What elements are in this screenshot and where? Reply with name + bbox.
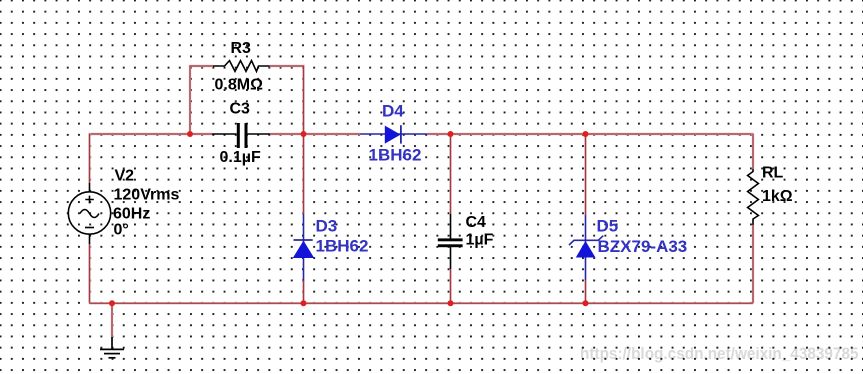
node 7 bottom junction at C4 branch [448,300,454,306]
wire top rail left segment [90,133,213,135]
node 1 top-left junction [187,131,193,137]
svg-text:60Hz: 60Hz [113,206,150,223]
node 2 top junction at D3 branch [301,131,307,137]
wire RL branch lower [752,225,754,303]
svg-text:C3: C3 [230,101,251,118]
svg-text:1BH62: 1BH62 [369,146,422,165]
node 3 top junction at C4 branch [448,131,454,137]
node 8 bottom junction at D5 branch [583,300,589,306]
zener diode D5 [569,215,603,280]
wire D3 branch lower [302,280,304,303]
wire RL branch upper [752,133,754,169]
AC source V2 [68,183,110,244]
svg-text:D4: D4 [382,102,404,121]
svg-text:1BH62: 1BH62 [316,237,369,256]
capacitor C3 [212,123,270,148]
svg-text:120Vrms: 120Vrms [114,187,180,204]
wire bottom rail [90,302,754,304]
capacitor C4 [438,214,463,269]
svg-text:0°: 0° [114,222,129,239]
wire top rail middle segment [270,133,361,135]
svg-text:1kΩ: 1kΩ [762,188,793,205]
wire left vertical lower [88,244,90,303]
svg-text:1µF: 1µF [466,232,494,249]
wire D3 branch upper [302,134,304,214]
svg-text:V2: V2 [115,168,135,185]
wire D5 branch upper [584,134,586,215]
wire top rail right segment [427,133,753,135]
resistor RL [748,169,759,225]
node 5 ground junction [109,300,115,306]
svg-text:BZX79-A33: BZX79-A33 [598,237,688,256]
wire C4 branch upper [449,134,451,214]
ground [100,337,124,358]
wire R3 branch [190,66,304,134]
svg-text:RL: RL [762,165,784,182]
wire ground stem [111,303,113,337]
wire left vertical upper [88,133,90,183]
diode D3 [293,214,314,281]
node 4 top junction at D5 branch [583,131,589,137]
svg-text:R3: R3 [231,40,252,57]
svg-text:0.1µF: 0.1µF [220,149,261,166]
resistor R3 [213,61,270,72]
svg-text:C4: C4 [466,214,487,231]
node 6 bottom junction at D3 branch [301,300,307,306]
diode D4 [360,125,427,143]
svg-text:D3: D3 [316,217,338,236]
wire D5 branch lower [584,280,586,303]
svg-text:0.8MΩ: 0.8MΩ [215,77,264,94]
svg-text:D5: D5 [597,217,619,236]
wire C4 branch lower [449,269,451,303]
